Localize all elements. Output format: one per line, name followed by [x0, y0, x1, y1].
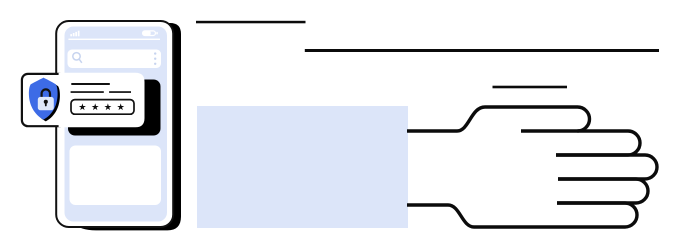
phone back shadow [64, 23, 181, 230]
hand: pinky and bottom outline [407, 203, 637, 227]
lock body [38, 97, 54, 110]
password box [71, 100, 134, 115]
card text line 2a [71, 91, 104, 93]
card white body [59, 73, 145, 128]
search bar [68, 50, 162, 69]
black panel behind card [68, 80, 161, 136]
hand: thumb/top outline [407, 107, 590, 131]
battery [142, 31, 158, 36]
phone screen [65, 27, 168, 222]
card bordered left part [22, 74, 65, 126]
signal bars [70, 31, 79, 37]
shield shadow [31, 79, 60, 121]
lock shackle [42, 89, 50, 98]
three dots menu [154, 52, 156, 65]
hand: middle finger [556, 155, 657, 179]
magnifier icon [73, 53, 82, 63]
top short line left [196, 21, 306, 24]
keyhole [44, 100, 48, 104]
status bar separator line [68, 39, 160, 40]
hand: index finger [521, 131, 640, 155]
phone body [56, 21, 173, 227]
stars [79, 103, 124, 110]
card text line 1 [71, 83, 110, 85]
top long line [305, 49, 659, 52]
speed line above hand [493, 86, 568, 89]
hand: ring finger [557, 179, 648, 203]
bottom content white rect [70, 146, 162, 206]
big light blue rectangle [197, 106, 408, 228]
card text line 2b [109, 91, 131, 93]
shield [29, 78, 58, 120]
